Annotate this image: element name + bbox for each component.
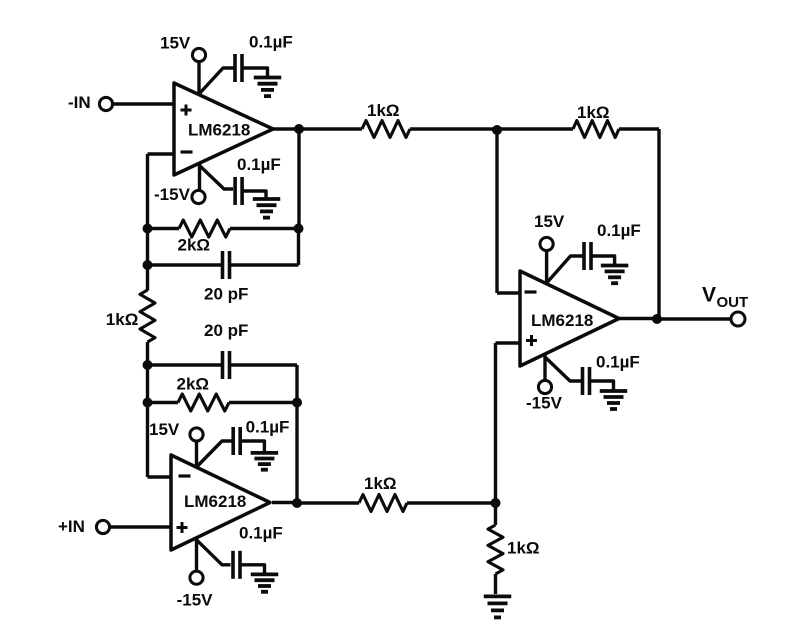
- wire C6 to ground: [590, 381, 614, 391]
- terminal 15V (U3 V+): [540, 237, 553, 250]
- node K (U3 noninverting net): [491, 498, 501, 508]
- terminal 15V (U1 V+): [192, 48, 205, 61]
- capacitor C6 0.1µF (U3 V- bypass): [581, 367, 585, 395]
- wire node H to 1kΩ: [297, 501, 359, 504]
- wire 1kΩ to ground: [494, 574, 497, 594]
- resistor 2kΩ (U1 feedback): [179, 220, 230, 237]
- wire feedback right drop: [657, 129, 660, 319]
- wire C4 to ground: [240, 565, 265, 575]
- svg-text:0.1µF: 0.1µF: [596, 353, 640, 372]
- svg-text:V: V: [702, 284, 716, 307]
- terminal VOUT: [731, 312, 745, 326]
- wire left feedback bus lower: [146, 365, 149, 477]
- wire U2 V- supply: [195, 539, 198, 571]
- wire U1 output to node A: [273, 127, 299, 130]
- svg-text:15V: 15V: [534, 212, 565, 231]
- node B (2kΩ top left): [143, 224, 153, 234]
- node G (2kΩ bottom right): [292, 398, 302, 408]
- op-amp U2 (LM6218): [171, 455, 270, 550]
- capacitor 20pF (top): [221, 251, 225, 279]
- svg-text:2kΩ: 2kΩ: [177, 375, 210, 394]
- ground (C3): [251, 451, 279, 455]
- wire U1 V- supply: [198, 163, 201, 191]
- wire C1 to U1 V+ pin: [199, 68, 236, 94]
- svg-text:OUT: OUT: [717, 294, 749, 311]
- svg-text:-15V: -15V: [177, 591, 214, 610]
- capacitor C4 0.1µF (U2 V- bypass): [231, 551, 235, 579]
- wire C2 to ground: [242, 191, 266, 199]
- wire node G down to U2 output: [295, 403, 298, 504]
- wire node A to 1kΩ input resistor: [299, 127, 362, 130]
- wire C1 to ground: [242, 68, 268, 78]
- terminal -IN: [99, 97, 112, 110]
- wire 1kΩ to node J: [410, 127, 497, 130]
- svg-text:0.1µF: 0.1µF: [237, 155, 281, 174]
- wire 2kΩ bottom left lead: [148, 401, 179, 404]
- node F (2kΩ bottom left): [143, 398, 153, 408]
- resistor 1kΩ (to ground): [488, 525, 503, 574]
- svg-text:0.1µF: 0.1µF: [239, 524, 283, 543]
- wire node A down to feedback network: [297, 129, 300, 229]
- wire U1 V+ supply: [197, 62, 200, 96]
- wire to U3 noninverting input: [496, 341, 521, 344]
- wire C2 to U1 V- pin: [200, 166, 233, 189]
- wire C4 to U2 V- pin: [197, 540, 231, 565]
- svg-text:15V: 15V: [160, 34, 191, 53]
- wire 20pF bottom right drop: [295, 365, 298, 403]
- resistor 1kΩ (U1 out to U3): [362, 121, 410, 138]
- svg-text:20 pF: 20 pF: [204, 285, 248, 304]
- resistor 2kΩ (U2 feedback): [178, 394, 229, 411]
- svg-text:-15V: -15V: [526, 394, 563, 413]
- wire to U3 inverting input: [497, 291, 520, 294]
- ground (C4): [251, 573, 279, 577]
- svg-text:1kΩ: 1kΩ: [367, 101, 400, 120]
- wire 2kΩ top left lead: [148, 227, 180, 230]
- node D (20pF top left): [143, 260, 153, 270]
- wire feedback top right: [619, 127, 659, 130]
- wire C6 to U3 V- pin: [545, 357, 582, 381]
- node E (20pF bottom left): [143, 360, 153, 370]
- op-amp U1 (LM6218): [174, 83, 273, 175]
- resistor 1kΩ (U2 out to U3): [359, 495, 407, 512]
- svg-text:-15V: -15V: [154, 185, 191, 204]
- wire node L to VOUT terminal: [657, 317, 732, 320]
- wire -IN to U1 noninverting input: [113, 102, 175, 105]
- capacitor C2 0.1µF (U1 V- bypass): [233, 177, 237, 205]
- wire node C down to 20pF: [297, 229, 300, 266]
- svg-text:1kΩ: 1kΩ: [364, 474, 397, 493]
- ground (noninverting divider): [484, 595, 512, 599]
- wire 20pF top right lead: [230, 263, 299, 266]
- wire C3 to U2 V+ pin: [197, 441, 233, 467]
- capacitor C5 0.1µF (U3 V+ bypass): [582, 242, 586, 270]
- ground (C1): [254, 76, 282, 80]
- wire 1kΩ lower lead: [146, 342, 149, 365]
- wire left feedback bus upper: [146, 154, 149, 291]
- svg-text:LM6218: LM6218: [188, 121, 250, 140]
- svg-text:20 pF: 20 pF: [204, 321, 248, 340]
- op-amp U3 (LM6218): [520, 271, 619, 366]
- wire 20pF bottom right lead: [230, 363, 298, 366]
- wire U2 inverting input: [148, 475, 172, 478]
- capacitor C3 0.1µF (U2 V+ bypass): [231, 427, 235, 455]
- wire 1kΩ to node K: [407, 501, 496, 504]
- svg-text:0.1µF: 0.1µF: [597, 221, 641, 240]
- terminal -15V (U2 V-): [190, 571, 203, 584]
- terminal +IN: [96, 520, 109, 533]
- node J (U3 inverting net): [492, 125, 502, 135]
- svg-text:0.1µF: 0.1µF: [249, 33, 293, 52]
- terminal -15V (U3 V-): [538, 380, 551, 393]
- node L (VOUT junction): [652, 314, 662, 324]
- capacitor 20pF (bottom): [221, 351, 225, 379]
- capacitor C1 0.1µF (U1 V+ bypass): [233, 54, 237, 82]
- wire U3 output: [619, 317, 657, 320]
- node C (2kΩ top right): [294, 224, 304, 234]
- wire U3 V+ supply: [545, 251, 548, 285]
- node H (U2 output junction): [292, 498, 302, 508]
- ground (C5): [601, 264, 629, 268]
- wire node J down: [495, 130, 498, 293]
- svg-text:15V: 15V: [149, 420, 180, 439]
- wire 20pF top left lead: [148, 263, 223, 266]
- wire U2 V+ supply: [195, 441, 198, 468]
- wire U2 output to node H: [272, 501, 297, 504]
- node A (U1 output junction): [294, 124, 304, 134]
- wire U1 inverting input: [148, 152, 175, 155]
- resistor 1kΩ (U3 feedback): [573, 121, 619, 138]
- ground (C6): [600, 389, 628, 393]
- wire node K to 1kΩ ground leg: [494, 503, 497, 525]
- wire C3 to ground: [240, 441, 264, 453]
- svg-text:1kΩ: 1kΩ: [106, 310, 139, 329]
- terminal 15V (U2 V+): [190, 428, 203, 441]
- wire +IN to U2 noninverting input: [110, 525, 172, 528]
- svg-text:1kΩ: 1kΩ: [577, 103, 610, 122]
- resistor 1kΩ (gain set, vertical): [140, 290, 155, 342]
- ground (C2): [253, 197, 281, 201]
- svg-text:LM6218: LM6218: [184, 492, 246, 511]
- svg-text:2kΩ: 2kΩ: [178, 236, 211, 255]
- wire 20pF bottom left lead: [148, 363, 223, 366]
- wire C5 to ground: [591, 256, 615, 266]
- wire 2kΩ top right lead: [230, 227, 299, 230]
- wire U3 V- supply: [543, 355, 546, 381]
- svg-text:+IN: +IN: [58, 517, 85, 536]
- svg-text:0.1µF: 0.1µF: [246, 418, 290, 437]
- wire C5 to U3 V+ pin: [547, 256, 583, 283]
- svg-text:LM6218: LM6218: [531, 311, 593, 330]
- svg-text:-IN: -IN: [68, 93, 91, 112]
- wire node J to feedback 1kΩ: [497, 127, 573, 130]
- svg-text:1kΩ: 1kΩ: [507, 539, 540, 558]
- terminal -15V (U1 V-): [192, 190, 205, 203]
- wire 2kΩ bottom right lead: [229, 401, 297, 404]
- wire node K up: [494, 343, 497, 503]
